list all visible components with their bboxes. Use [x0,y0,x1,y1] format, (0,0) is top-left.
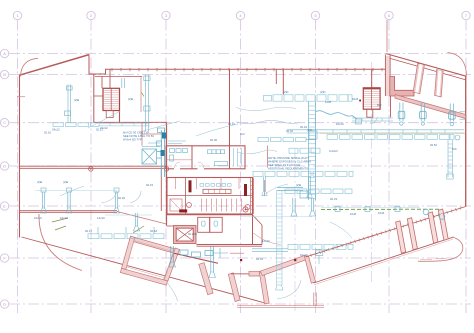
svg-text:02.20: 02.20 [118,196,125,200]
tooth B pier 1 [199,263,213,295]
tiny blue annotation text [34,90,457,261]
long wall row D [20,165,167,167]
pier pair 2a [428,212,438,243]
grid intersection markers [240,259,242,261]
diffuser squares on run7 [335,207,340,212]
right outer wall [465,77,467,207]
tooth A inner outline [127,240,173,278]
olive marks [52,93,144,234]
core left wall [166,122,168,225]
tooth B pier 2 [228,273,240,302]
toilet left column partition [185,178,187,215]
column circles on row D wall [89,167,93,171]
stall partitions [176,178,242,212]
duct run 4b right lower [287,130,464,133]
svg-text:02.15: 02.15 [146,183,153,187]
svg-text:(2)D: (2)D [320,90,325,94]
svg-text:8x6: 8x6 [452,147,457,151]
tooth C left descender [259,272,269,304]
door arcs inside upper room [174,162,180,169]
corridor risers row E left [41,188,140,231]
TR shape bottom edge [395,95,466,119]
svg-text:02.31: 02.31 [256,257,263,261]
SE corner curve [418,238,463,262]
svg-text:16x16: 16x16 [336,122,344,126]
sinks row [200,184,231,187]
core upper room fixtures [168,141,242,166]
svg-text:D: D [3,164,6,169]
svg-text:(2)E: (2)E [128,97,133,101]
svg-text:24x12: 24x12 [52,128,60,132]
secondary reference lines [295,62,372,313]
TR shape top edge (double) [386,54,467,77]
dark red door fills [189,180,192,192]
svg-text:(2)E: (2)E [63,180,68,184]
svg-text:E: E [3,204,6,209]
svg-text:10x8: 10x8 [350,212,357,216]
right lower thin diagonal [314,237,454,283]
stair 1 [103,88,120,110]
vanity counter band [203,189,231,193]
bottom-left corner fillet arc [39,214,82,271]
tooth B caps [174,253,218,263]
stair 2 link wall [371,69,373,88]
svg-text:12x10: 12x10 [262,239,270,243]
hall wall [282,69,284,94]
WC fixtures in unisex rooms [202,221,206,226]
svg-text:16x10: 16x10 [34,216,42,220]
svg-text:10x8: 10x8 [352,97,359,101]
run 1 feeders [68,75,149,132]
peak step and main top wall [89,55,386,74]
top wall mullion ticks [112,68,382,71]
door gaps in room bottom [174,168,180,170]
long bottom diagonal slab edge [22,237,268,304]
red column circle [243,207,248,212]
horizontal grid lines [9,54,471,305]
duct to chase [277,188,303,191]
threshold line [230,252,244,254]
right upper thin diagonal [306,207,466,258]
VAV drops top right [398,103,465,126]
riser below core [211,247,214,273]
TR corner arc [448,53,467,76]
cyan ladder chase right of core [277,190,283,285]
svg-text:16x10: 16x10 [60,216,68,220]
svg-text:02.20E: 02.20E [188,232,197,236]
junction fitting [309,131,317,139]
duct run 1 (row C left) [53,123,99,127]
east room wall [267,146,269,168]
svg-text:02.40: 02.40 [286,129,293,133]
duct row y148 [289,148,320,153]
duct run 6 row F left [88,234,164,239]
duct run 5 (row with boxes, right) [327,135,454,140]
TR thick L wall [390,77,414,97]
core lower rooms [167,225,175,227]
stair 2 [363,88,380,109]
svg-text:G: G [3,302,6,307]
svg-text:14x10: 14x10 [97,216,105,220]
svg-text:02.17: 02.17 [85,229,92,233]
top duct run 3 [264,95,353,101]
grid bubbles left [0,49,8,308]
svg-text:02.30: 02.30 [210,138,217,142]
pier pair 1a [396,221,406,253]
small rooms left of cluster [141,123,143,146]
duct row y189 [285,189,352,194]
tooth C base line [237,306,324,308]
tooth A bottom band [120,268,167,285]
pier pair 2b [438,209,448,240]
svg-text:B: B [3,72,6,77]
leader curves hall [60,111,352,238]
svg-text:12x8: 12x8 [325,100,332,104]
pier pair 1b [407,218,417,250]
svg-text:3-24x3: 3-24x3 [329,149,338,153]
svg-text:(2)E: (2)E [74,98,79,102]
tooth A tilted box: top band [129,236,176,253]
main vertical duct ladder [309,102,316,201]
cluster below core [169,246,228,267]
stair 1 enclosure walls [93,74,95,122]
svg-text:8x6: 8x6 [377,103,382,107]
WC fixtures [187,203,192,208]
core upper room [166,146,245,169]
svg-text:W 8x4 SD TYP: W 8x4 SD TYP [123,138,142,142]
core toilet block [167,178,253,215]
svg-text:(2)D: (2)D [283,90,288,94]
svg-text:24x12: 24x12 [100,126,108,130]
svg-text:10x8: 10x8 [378,211,385,215]
escalator band 1 [413,63,424,93]
tooth C lambda: stub [249,271,261,276]
tooth A left band [122,236,135,269]
wall row E [20,210,118,212]
svg-text:(2)E: (2)E [37,180,42,184]
svg-text:(2)E: (2)E [296,183,301,187]
door swing arcs [101,107,378,301]
top-left corner fillet arc [21,58,39,76]
central dense cluster [142,128,166,177]
escalator band 2 [435,70,444,97]
olive pipe line [320,132,465,134]
tooth A right band [164,248,180,281]
svg-text:10x10: 10x10 [300,253,308,257]
svg-text:02.33: 02.33 [330,197,337,201]
run 7 diffuser line row E right [321,208,439,210]
svg-text:8x4: 8x4 [240,132,245,136]
svg-text:ADDITIONAL REQUIREMENTS: ADDITIONAL REQUIREMENTS [268,167,308,171]
stair1 top cyan stub [122,78,125,88]
left outer wall [19,75,21,238]
svg-text:02.41: 02.41 [228,122,235,126]
door swing from core [254,233,282,245]
svg-text:(2)D: (2)D [307,128,312,132]
svg-text:A: A [3,51,6,56]
s-curve flex duct to stair2 [316,111,357,119]
thin line y216.8 [240,216,312,218]
TR shape left edge [386,56,390,96]
duct row y171 east of core [253,171,353,176]
svg-text:02.18: 02.18 [150,229,157,233]
run 8 row F right [252,249,288,252]
top-left diagonal roof wall [20,55,90,76]
core bottom wall [197,244,263,246]
tooth C falling band [304,256,315,284]
elevator shaft [174,226,197,244]
red ladder chase right edge [251,178,254,215]
duct run 4 right upper [352,118,393,121]
duct run 2 (into shaft) [258,138,306,142]
svg-text:C: C [3,120,6,125]
svg-text:02.52: 02.52 [430,143,437,147]
svg-text:02.10: 02.10 [44,131,51,135]
tooth C rising band [260,256,307,276]
unisex WC rooms [198,217,210,232]
grid bubbles top [13,11,470,19]
